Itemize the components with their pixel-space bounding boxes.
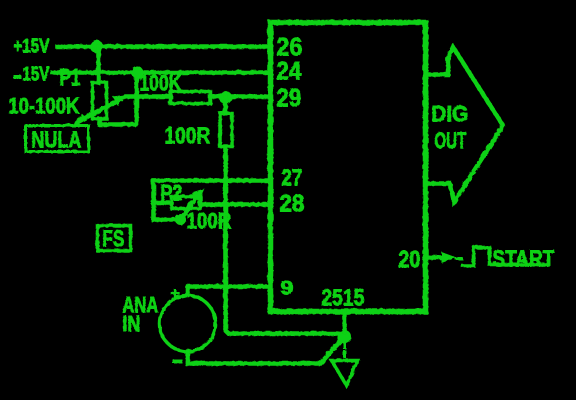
svg-text:P2: P2 [160,180,182,205]
svg-text:OUT: OUT [434,127,466,153]
wire P2 bottom edge [153,217,181,222]
svg-text:29: 29 [276,84,301,112]
svg-text:IN: IN [122,311,140,336]
svg-text:DIG: DIG [431,101,468,126]
label box NULA [25,125,88,151]
resistor 100K body [170,91,210,103]
wire P1 wiper to R 100K [126,94,170,99]
resistor 100R body [220,113,232,146]
wire pin 27 to P2 box [153,178,267,183]
wire IC bottom pin to node E [342,311,347,331]
svg-text:100K: 100K [139,70,181,95]
svg-text:10-100K: 10-100K [8,93,79,118]
potentiometer P1 body [92,82,106,118]
label -15V [13,63,49,85]
wire P2 left edge down [151,180,156,219]
wire -15V to pin 24 [52,70,267,75]
ground symbol [331,360,357,385]
DIG OUT block arrow [426,47,503,202]
wire 100K to pin 29 [210,94,267,99]
node junction E [338,330,351,343]
svg-text:P1: P1 [59,64,80,91]
wire 100R bottom lead down and right to node E [225,146,341,333]
svg-text:27: 27 [281,164,302,190]
wire P2 left lead [153,200,171,205]
potentiometer P2 body [171,196,200,208]
svg-text:100R: 100R [164,122,210,148]
node junction -15V/P1 bottom [131,66,143,78]
node junction P2 wiper [175,214,186,225]
svg-text:20: 20 [398,246,420,273]
svg-text:+: + [170,285,179,302]
wire P2 to pin 28 [200,202,267,207]
wire ANA IN minus lead to node E [187,338,342,363]
svg-text:28: 28 [279,190,304,217]
wire +15V to pin 26 [57,44,267,49]
START output arrow [428,255,444,260]
START pulse waveform [462,247,548,265]
label box FS [97,225,130,250]
node junction 100K/100R [219,91,232,104]
svg-text:2515: 2515 [321,284,364,310]
P1 wiper arrow [76,94,127,123]
wire 100R top lead [223,97,228,113]
svg-text:NULA: NULA [31,126,81,152]
wire node E to ground (dashed) [343,342,346,358]
wire P1 top lead [96,46,101,82]
node junction +15V/P1 top [90,40,103,53]
label minus terminal [172,359,182,363]
svg-text:100R: 100R [186,208,231,233]
svg-text:9: 9 [280,278,293,299]
IC U1 2515 body [270,22,425,311]
svg-text:24: 24 [276,57,301,85]
wire ANA IN plus lead to IC left pin [187,286,267,295]
svg-text:FS: FS [102,225,124,251]
svg-text:+15V: +15V [13,35,49,57]
wire P1 bottom lead to -15V line [99,72,136,124]
source ANA IN circle [159,295,215,351]
svg-text:15V: 15V [22,63,49,85]
P2 wiper arrow [180,188,204,219]
svg-text:START: START [492,245,554,271]
